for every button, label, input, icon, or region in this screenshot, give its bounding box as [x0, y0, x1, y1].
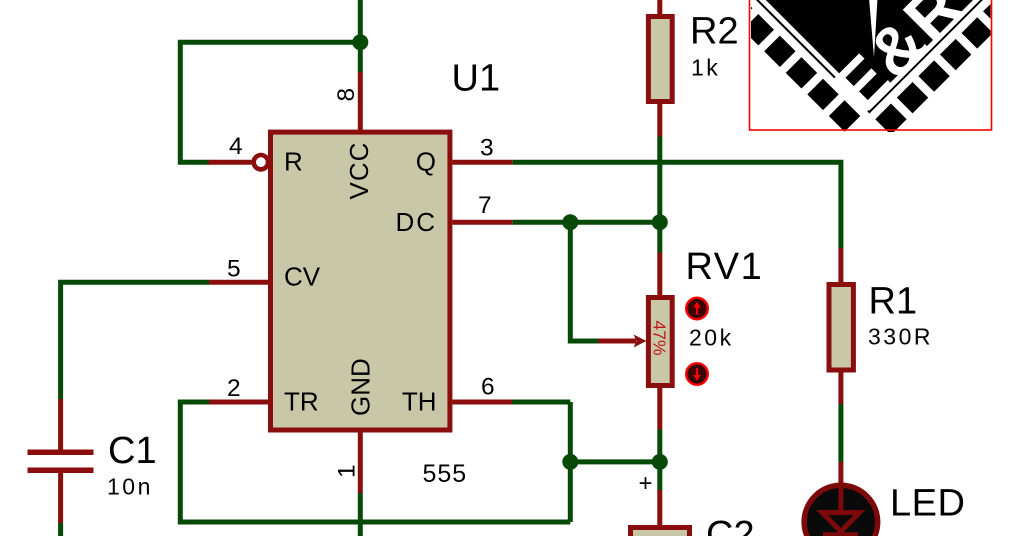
- wire DC net: [512, 220, 660, 225]
- wire TH horizontal: [512, 400, 570, 405]
- svg-text:1: 1: [334, 464, 361, 478]
- svg-text:TR: TR: [284, 387, 319, 417]
- wire VCC top vertical: [358, 0, 363, 72]
- wire R2 to DC junction: [657, 137, 662, 223]
- wire below C1: [58, 523, 63, 536]
- logo chip outline square: [722, 0, 1016, 112]
- wire CV net: [61, 282, 209, 399]
- svg-text:4: 4: [229, 133, 243, 160]
- LED anode lead: [838, 462, 843, 486]
- resistor R2 body: [648, 17, 672, 102]
- svg-text:47%: 47%: [649, 321, 669, 356]
- svg-text:2: 2: [227, 375, 241, 402]
- capacitor C2 top lead: [657, 490, 662, 527]
- capacitor C1 top stub: [58, 399, 63, 450]
- logo group: [699, 0, 1020, 156]
- logo red border: [750, 0, 992, 130]
- pin 1 stub: [358, 432, 363, 493]
- svg-text:R1: R1: [869, 280, 918, 322]
- svg-text:GND: GND: [346, 358, 376, 416]
- wire DC junction to RV1: [657, 222, 662, 252]
- pin 3 stub: [452, 160, 512, 165]
- svg-text:7: 7: [478, 192, 492, 219]
- pin 8 stub: [358, 72, 363, 131]
- svg-text:1k: 1k: [691, 55, 720, 81]
- pin 4 stub: [209, 160, 252, 165]
- svg-text:20k: 20k: [689, 325, 734, 351]
- svg-text:VCC: VCC: [344, 142, 374, 200]
- LED cathode bar: [823, 532, 858, 536]
- wire wiper net: [570, 222, 598, 341]
- junction VCC node: [352, 34, 368, 50]
- wire C2 junction down: [657, 462, 662, 490]
- junction C2 node: [652, 454, 668, 470]
- svg-text:DC: DC: [395, 207, 437, 237]
- svg-text:3: 3: [480, 135, 494, 162]
- svg-text:RV1: RV1: [686, 246, 764, 288]
- resistor R1 bottom lead: [838, 371, 843, 404]
- resistor R2 bottom lead: [657, 104, 662, 137]
- pin 6 stub: [452, 400, 512, 405]
- capacitor C1 bottom lead: [58, 473, 63, 523]
- junction TH node: [562, 454, 578, 470]
- potentiometer RV1 bottom lead: [657, 388, 662, 430]
- svg-text:C1: C1: [108, 430, 157, 472]
- logo pads: [699, 0, 1020, 156]
- wire GND below pin 1: [358, 493, 363, 536]
- LED inner anode line: [838, 486, 843, 511]
- wire RV1 to C2 junction: [657, 430, 662, 462]
- wire R1 to LED: [838, 404, 843, 462]
- resistor R1 body: [829, 285, 853, 371]
- logo chip body: [731, 0, 1008, 104]
- svg-text:Q: Q: [416, 147, 436, 177]
- pin 4 inversion bubble: [254, 155, 268, 169]
- svg-text:330R: 330R: [868, 324, 933, 350]
- potentiometer RV1 body: [648, 298, 672, 386]
- logo white wedge: [869, 0, 878, 57]
- svg-text:R2: R2: [690, 11, 739, 53]
- LED D1 body: [804, 485, 878, 536]
- svg-text:555: 555: [423, 460, 468, 488]
- wiper arrow lead: [599, 339, 637, 344]
- pin 2 stub: [209, 400, 268, 405]
- wire junction row to C2: [570, 459, 660, 464]
- resistor R1 top stub: [838, 248, 843, 284]
- svg-text:10n: 10n: [107, 474, 153, 500]
- svg-text:C2: C2: [706, 514, 755, 536]
- wire TH vertical: [568, 402, 573, 522]
- svg-text:R: R: [284, 147, 303, 177]
- resistor R2 top lead: [657, 0, 662, 16]
- svg-text:8: 8: [333, 88, 360, 102]
- wire VCC horizontal and left drop to pin 4: [180, 42, 360, 162]
- RV1 down button: [686, 363, 708, 385]
- svg-text:CV: CV: [284, 262, 321, 292]
- wiper arrowhead: [634, 335, 647, 348]
- svg-text:TH: TH: [402, 387, 437, 417]
- pin 5 stub: [209, 280, 268, 285]
- IC U1 555 body: [271, 132, 450, 430]
- LED triangle: [822, 513, 860, 532]
- svg-text:6: 6: [481, 374, 495, 401]
- capacitor C2 plate box: [631, 528, 690, 536]
- wire Q output net: [512, 162, 841, 248]
- wire TR net and bottom rail: [180, 402, 570, 522]
- capacitor C1 plate 2: [28, 468, 94, 474]
- pin 7 stub: [452, 220, 512, 225]
- RV1 up button: [686, 298, 708, 320]
- potentiometer RV1 top lead: [657, 253, 662, 298]
- svg-text:+: +: [638, 470, 652, 497]
- svg-text:U1: U1: [452, 58, 501, 100]
- junction DC-wiper: [562, 214, 578, 230]
- capacitor C1 plate 1: [28, 449, 94, 455]
- svg-text:5: 5: [227, 255, 241, 282]
- svg-text:LED: LED: [890, 483, 965, 525]
- junction DC-R2: [652, 214, 668, 230]
